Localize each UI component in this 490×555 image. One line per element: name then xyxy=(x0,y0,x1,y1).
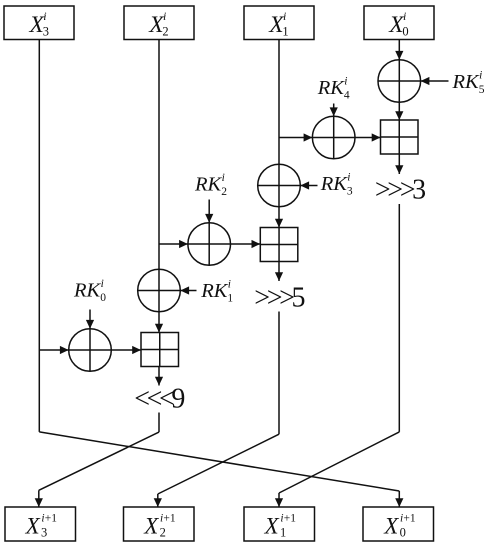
svg-text:<<<9: <<<9 xyxy=(134,383,184,414)
svg-text:RK: RK xyxy=(320,173,349,195)
svg-text:X: X xyxy=(383,514,399,539)
svg-text:RK: RK xyxy=(317,77,346,99)
svg-text:RK: RK xyxy=(452,71,481,93)
svg-text:3: 3 xyxy=(43,25,49,39)
svg-text:i: i xyxy=(222,172,225,184)
svg-text:3: 3 xyxy=(347,186,353,198)
svg-text:1: 1 xyxy=(227,292,233,304)
svg-text:4: 4 xyxy=(344,90,350,102)
svg-text:i: i xyxy=(344,75,347,87)
svg-text:X: X xyxy=(25,514,41,539)
svg-text:X: X xyxy=(143,514,159,539)
svg-text:2: 2 xyxy=(162,25,168,39)
svg-text:0: 0 xyxy=(400,525,406,539)
svg-text:RK: RK xyxy=(200,280,229,302)
svg-text:+1: +1 xyxy=(45,513,57,525)
svg-text:5: 5 xyxy=(479,84,485,96)
svg-text:i: i xyxy=(228,278,231,290)
svg-text:>>>3: >>>3 xyxy=(375,174,425,205)
svg-text:+1: +1 xyxy=(163,513,175,525)
svg-text:X: X xyxy=(264,514,280,539)
svg-text:>>>5: >>>5 xyxy=(254,282,304,313)
svg-text:0: 0 xyxy=(402,25,408,39)
svg-text:0: 0 xyxy=(100,292,106,304)
svg-text:1: 1 xyxy=(282,25,288,39)
svg-text:i: i xyxy=(347,171,350,183)
svg-text:+1: +1 xyxy=(403,513,415,525)
svg-text:2: 2 xyxy=(160,525,166,539)
svg-text:3: 3 xyxy=(41,525,47,539)
svg-text:i: i xyxy=(43,9,46,23)
svg-text:1: 1 xyxy=(280,525,286,539)
svg-text:2: 2 xyxy=(221,186,227,198)
svg-text:i: i xyxy=(101,278,104,290)
svg-text:i: i xyxy=(163,9,166,23)
svg-text:RK: RK xyxy=(194,173,223,195)
svg-text:i: i xyxy=(479,70,482,82)
svg-text:i: i xyxy=(403,9,406,23)
svg-text:+1: +1 xyxy=(284,513,296,525)
svg-text:i: i xyxy=(283,9,286,23)
svg-text:RK: RK xyxy=(73,279,102,301)
